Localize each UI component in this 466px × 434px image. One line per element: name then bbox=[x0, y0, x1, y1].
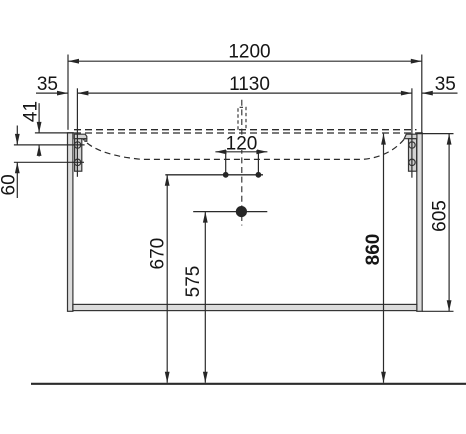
dim 605 extension top bbox=[416, 133, 453, 135]
svg-text:670: 670 bbox=[148, 238, 169, 270]
svg-text:60: 60 bbox=[0, 174, 20, 195]
dim 575 line bbox=[204, 212, 206, 383]
arrow 575 bottom bbox=[203, 372, 208, 383]
faucet line bbox=[193, 211, 267, 213]
dim 60 line upper bbox=[16, 126, 18, 145]
right bracket body bbox=[409, 139, 417, 172]
dim 35 right line bbox=[422, 92, 458, 94]
svg-text:41: 41 bbox=[20, 101, 41, 122]
left bracket body bbox=[75, 139, 82, 172]
fixing hole dot right bbox=[256, 172, 262, 178]
svg-text:860: 860 bbox=[363, 234, 384, 266]
fixing hole dot left bbox=[223, 172, 229, 178]
arrow 1200 left bbox=[68, 59, 79, 64]
dim 60 line lower bbox=[16, 162, 18, 198]
right bracket screw lower bbox=[409, 159, 415, 165]
left bracket hook bbox=[85, 139, 87, 142]
left bracket screw upper bbox=[74, 142, 80, 148]
dim 605 extension bottom bbox=[422, 310, 453, 312]
arrow 35 right bbox=[422, 91, 433, 96]
arrow 860 top bbox=[381, 134, 386, 145]
arrow 605 top bbox=[447, 134, 452, 145]
dim 1130 extension line left bbox=[76, 88, 78, 177]
dim 1200 line bbox=[68, 60, 422, 62]
dim 605 line bbox=[448, 134, 450, 312]
dim 41 line upper bbox=[38, 103, 40, 133]
dim 1130 line bbox=[77, 92, 412, 94]
right bracket top plate bbox=[404, 134, 417, 139]
arrow 120 left bbox=[215, 149, 226, 154]
dim 120 extension left bbox=[225, 152, 227, 175]
left bracket screw lower bbox=[74, 159, 80, 165]
faucet hole dot bbox=[236, 206, 247, 217]
dim 1130 extension line right bbox=[411, 88, 413, 177]
dim 120 line bbox=[215, 151, 267, 153]
arrow 60 bottom bbox=[15, 162, 20, 173]
svg-text:575: 575 bbox=[183, 266, 204, 298]
svg-text:35: 35 bbox=[37, 74, 58, 95]
dim 35 left line bbox=[36, 92, 68, 94]
svg-text:35: 35 bbox=[435, 74, 456, 95]
dim 1200 extension line left bbox=[67, 55, 69, 130]
tap centerline bbox=[241, 100, 243, 226]
dim 1200 extension line right bbox=[421, 55, 423, 134]
washbasin rim hidden line bottom bbox=[74, 132, 416, 134]
washbasin bowl hidden outline bbox=[81, 136, 407, 160]
svg-text:1130: 1130 bbox=[229, 74, 270, 95]
label 120 background bbox=[226, 136, 257, 150]
hanger hole upper reference line bbox=[14, 144, 85, 146]
arrow 41 bottom bbox=[37, 145, 42, 156]
arrow 35 left bbox=[57, 91, 68, 96]
arrow 1200 right bbox=[411, 59, 422, 64]
arrow 575 top bbox=[203, 212, 208, 223]
cabinet left side panel bbox=[68, 133, 73, 311]
arrow 120 right bbox=[256, 149, 267, 154]
arrow 605 bottom bbox=[447, 300, 452, 311]
cabinet bottom shelf bbox=[73, 304, 417, 310]
arrow 1130 right bbox=[401, 91, 412, 96]
arrow 670 bottom bbox=[165, 372, 170, 383]
arrow 41 top bbox=[37, 122, 42, 133]
svg-text:120: 120 bbox=[226, 133, 258, 154]
svg-text:1200: 1200 bbox=[228, 41, 270, 62]
svg-text:605: 605 bbox=[429, 200, 450, 232]
arrow 860 bottom bbox=[381, 372, 386, 383]
washbasin rim hidden line top bbox=[74, 129, 417, 131]
left bracket top plate bbox=[74, 134, 87, 139]
arrow 670 top bbox=[165, 175, 170, 186]
arrow 1130 left bbox=[77, 91, 88, 96]
floor line bbox=[31, 383, 466, 385]
dim 120 extension right bbox=[257, 152, 259, 175]
right bracket screw upper bbox=[409, 142, 415, 148]
dim 670 line bbox=[166, 175, 168, 383]
hanger hole lower reference line bbox=[14, 161, 84, 163]
dim 41 extension line top bbox=[35, 132, 74, 134]
tap hole hidden box bbox=[238, 107, 246, 129]
cabinet right side panel bbox=[417, 133, 422, 311]
dim 41 line lower bbox=[38, 145, 40, 157]
arrow 60 top bbox=[15, 134, 20, 145]
fixing holes line bbox=[165, 174, 263, 176]
dim 860 line bbox=[383, 134, 385, 383]
